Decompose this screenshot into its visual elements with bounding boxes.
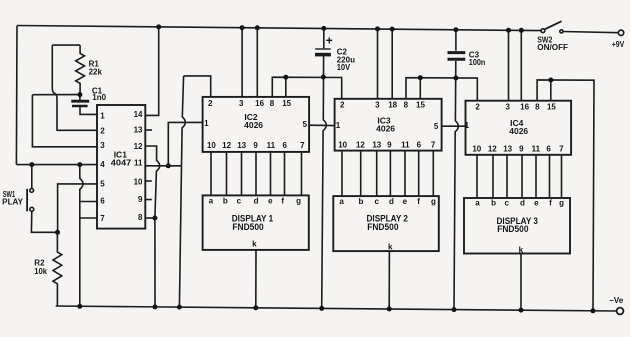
display 3 name DISPLAY 3 FND500: [497, 216, 539, 235]
wire IC3 pin 13 to display 2 segment c: [376, 151, 378, 197]
svg-text:4026: 4026: [244, 120, 263, 130]
svg-text:8: 8: [270, 99, 275, 108]
wire R1 top branch: [52, 44, 80, 46]
node rail/IC3 pin 3 junction: [375, 26, 380, 31]
svg-text:8: 8: [138, 213, 143, 222]
svg-text:13: 13: [237, 141, 246, 150]
wire IC1 pin 6: [80, 201, 97, 203]
svg-text:9: 9: [387, 141, 392, 150]
svg-text:7: 7: [100, 214, 105, 223]
IC1 pin numbers: [100, 110, 143, 223]
svg-text:12: 12: [222, 141, 231, 150]
wire IC4 pin 6 to display 3 segment f: [549, 155, 551, 198]
wire R1/C1 node line: [32, 94, 80, 96]
wire IC3 pin 12 to display 2 segment b: [360, 151, 362, 197]
svg-text:13: 13: [503, 145, 512, 154]
svg-text:15: 15: [282, 99, 291, 108]
svg-text:c: c: [504, 198, 509, 207]
wire IC1 pin 11 output: [145, 165, 181, 167]
node rail/IC2 pin 16 junction: [255, 25, 260, 30]
pin IC1 13 stub: [145, 129, 152, 131]
svg-text:ON/OFF: ON/OFF: [537, 43, 568, 52]
wire display 1 cathode k to ground rail: [255, 250, 257, 308]
svg-text:2: 2: [208, 99, 213, 108]
svg-text:18: 18: [388, 101, 397, 110]
wire +9V top rail: [17, 26, 541, 31]
svg-text:f: f: [417, 197, 420, 206]
wire IC3 pin 18 to rail: [391, 29, 393, 99]
svg-text:10V: 10V: [337, 63, 351, 72]
wire SW1 top lead: [31, 165, 33, 189]
node rail/IC2 pin 3 junction: [240, 25, 245, 30]
wire IC3 pin 11 to display 2 segment e: [404, 151, 406, 197]
wire IC2 pins 8/15 ground link to C2 node and IC3 pin 2: [272, 77, 341, 99]
terminal -Ve: [617, 308, 624, 315]
svg-text:c: c: [374, 197, 379, 206]
svg-text:11: 11: [134, 159, 143, 168]
node C3 / ground link junction: [453, 76, 458, 81]
display 1 name DISPLAY 1 FND500: [232, 214, 274, 233]
wire IC2 pin 16 to rail: [256, 28, 258, 97]
svg-text:5: 5: [100, 179, 105, 188]
label C3 100n: [469, 50, 486, 67]
label SW2 ON/OFF: [537, 36, 568, 52]
svg-text:3: 3: [239, 99, 244, 108]
svg-text:+: +: [326, 33, 333, 47]
pin IC1 10 stub: [145, 180, 152, 182]
wire IC4 pin 11 to display 3 segment e: [535, 155, 537, 198]
switch SW2 ON/OFF: [541, 21, 618, 33]
wire IC3 pin 15 riser: [419, 78, 421, 99]
svg-text:g: g: [559, 198, 564, 207]
node rail/IC4 pin 16 junction: [519, 28, 524, 33]
svg-text:14: 14: [134, 110, 143, 119]
svg-text:PLAY: PLAY: [2, 198, 23, 207]
svg-text:g: g: [431, 197, 436, 206]
svg-text:k: k: [388, 243, 393, 252]
wire IC4 pin 9 to display 3 segment d: [521, 155, 523, 198]
wire IC1 pin 14 to +9V rail: [145, 27, 158, 116]
svg-text:1: 1: [336, 121, 341, 130]
svg-text:15: 15: [416, 101, 425, 110]
capacitor C1 1n0: [71, 95, 97, 115]
svg-text:4: 4: [100, 160, 105, 169]
display 2 segment letters a-g and k: [339, 197, 436, 252]
svg-text:b: b: [223, 197, 228, 206]
svg-text:7: 7: [559, 145, 564, 154]
svg-text:15: 15: [547, 103, 556, 112]
wire IC3 pin 6 to display 2 segment f: [418, 151, 420, 197]
svg-text:12: 12: [356, 141, 365, 150]
display DISPLAY 3 FND500 body: [464, 198, 570, 254]
node ground rail / display 2 cathode: [387, 307, 392, 312]
node ground rail / IC1 pin 8 branch: [153, 304, 158, 309]
svg-text:10k: 10k: [34, 267, 47, 276]
svg-text:11: 11: [401, 141, 410, 150]
wire IC4 pin 13 to display 3 segment c: [506, 155, 508, 198]
switch SW1 PLAY: [27, 189, 34, 212]
svg-text:9: 9: [253, 141, 258, 150]
svg-text:9: 9: [138, 195, 143, 204]
svg-text:100n: 100n: [469, 58, 486, 67]
svg-text:5: 5: [303, 120, 308, 129]
node ground rail / IC4 right drop: [591, 308, 596, 313]
svg-text:f: f: [281, 197, 284, 206]
wire IC4 pin 16 to rail: [520, 30, 522, 100]
wire C2 to ground rail, hops clock line: [322, 56, 327, 309]
capacitor C3 100n plates: [448, 53, 466, 60]
IC4 name 4026: [509, 118, 528, 136]
IC U2 IC2 4026 body: [203, 97, 310, 152]
IC4 pin numbers: [465, 103, 564, 154]
svg-text:6: 6: [282, 141, 287, 150]
wire IC3 pin 5 to IC4 pin 1: [442, 125, 466, 127]
wire IC2 pin 2 ground drop, hops clock line: [179, 76, 185, 307]
wire IC2 pin 5 to IC3 pin 1: [309, 124, 335, 126]
wire IC4 pins 8/15 to ground rail right drop: [537, 80, 594, 311]
wire IC1 pin 4 line: [16, 164, 97, 166]
svg-text:1: 1: [100, 111, 105, 120]
svg-text:g: g: [296, 197, 301, 206]
svg-text:13: 13: [134, 126, 143, 135]
display DISPLAY 2 FND500 body: [333, 196, 439, 251]
node IC3 pin 15 / ground link junction: [418, 75, 423, 80]
display 2 name DISPLAY 2 FND500: [367, 214, 409, 233]
svg-text:6: 6: [546, 145, 551, 154]
node pin 4 line / SW1 junction: [29, 162, 34, 167]
wire IC4 pin 3 to rail: [508, 30, 510, 101]
svg-text:9: 9: [519, 145, 524, 154]
node SW1/R2/pin 5 junction: [55, 230, 60, 235]
svg-text:6: 6: [417, 141, 422, 150]
svg-text:3: 3: [100, 141, 105, 150]
svg-text:3: 3: [505, 103, 510, 112]
wire IC4 pin 10 to display 3 segment a: [476, 155, 478, 198]
node ground rail / C2 branch: [319, 306, 324, 311]
IC2 name 4026: [244, 112, 263, 130]
svg-text:1: 1: [465, 121, 470, 130]
resistor R2: [53, 232, 62, 306]
svg-text:k: k: [252, 240, 257, 249]
wire display 2 cathode k to ground rail: [388, 251, 390, 309]
IC1 name 4047: [111, 149, 132, 167]
wire IC4 pin 12 to display 3 segment b: [492, 155, 494, 198]
wire -Ve bottom rail: [56, 306, 617, 311]
node R1/C1 junction: [77, 92, 82, 97]
capacitor C2 220u top lead: [323, 28, 325, 48]
label R2 10k: [34, 259, 47, 276]
wire IC2 pin 11 to display 1 segment e: [270, 152, 272, 196]
display 1 segment letters a-g and k: [209, 197, 301, 249]
svg-text:13: 13: [372, 141, 381, 150]
node ground rail / display 3 cathode: [519, 308, 524, 313]
IC3 name 4026: [376, 115, 395, 133]
node pin 4 line / ground branch junction: [77, 162, 82, 167]
svg-text:8: 8: [535, 103, 540, 112]
svg-text:10: 10: [338, 141, 347, 150]
terminal +9V: [618, 30, 623, 35]
wire IC1 pins 12/8 to ground rail, hops pin 11 wire: [145, 146, 159, 307]
node ground rail / display 1 cathode: [253, 305, 258, 310]
node ground rail / C3 branch: [452, 307, 457, 312]
svg-text:b: b: [491, 198, 496, 207]
IC U4 IC4 4026 body: [466, 101, 572, 155]
svg-text:b: b: [359, 197, 364, 206]
svg-text:f: f: [549, 198, 552, 207]
wire C3 to ground rail, hops clock line: [454, 61, 458, 310]
wire clock from pin 11 node to IC2 pin 1: [168, 122, 202, 165]
svg-text:d: d: [254, 197, 259, 206]
wire IC2 pin 15 riser: [285, 77, 287, 97]
svg-text:FND500: FND500: [232, 222, 263, 233]
svg-text:a: a: [475, 198, 480, 207]
svg-text:–Ve: –Ve: [609, 296, 624, 305]
wire SW1 bottom lead: [31, 212, 57, 233]
node rail/IC3 pin 18 junction: [390, 27, 395, 32]
svg-text:22k: 22k: [89, 68, 103, 77]
wire IC2 pin 13 to display 1 segment c: [241, 152, 243, 196]
wire R1 top to IC1 pin 2, hops node line: [52, 45, 97, 130]
svg-text:7: 7: [431, 141, 436, 150]
wire IC2 pin 9 to display 1 segment d: [255, 152, 257, 196]
label C1 1n0: [92, 87, 107, 103]
capacitor C3 100n top lead: [455, 30, 457, 51]
svg-text:+9V: +9V: [612, 40, 625, 49]
wire left vertical from top rail: [15, 26, 18, 165]
svg-text:7: 7: [300, 141, 305, 150]
svg-text:FND500: FND500: [497, 224, 528, 235]
svg-text:3: 3: [375, 101, 380, 110]
svg-text:a: a: [339, 197, 344, 206]
IC U1 IC1 4047 body: [97, 105, 145, 229]
svg-text:10: 10: [207, 141, 216, 150]
svg-text:e: e: [268, 197, 273, 206]
svg-text:10: 10: [134, 177, 143, 186]
label SW1 PLAY: [2, 190, 23, 206]
wire IC2 pin 12 to display 1 segment b: [226, 152, 228, 196]
node rail/C2 junction: [321, 26, 326, 31]
svg-text:d: d: [520, 198, 525, 207]
display 3 segment letters a-g and k: [475, 198, 564, 254]
node IC1 pin 11 junction: [166, 163, 171, 168]
wire IC2 pin 10 to display 1 segment a: [210, 152, 212, 196]
wire IC2 pin 7 to display 1 segment g: [301, 152, 303, 196]
node IC2 pin 15 / ground link junction: [283, 75, 288, 80]
svg-text:2: 2: [475, 103, 480, 112]
wire IC1 pin 7: [80, 217, 97, 219]
capacitor C2 220u plates: [315, 49, 331, 55]
wire R2/SW1 node to IC1 pin 5: [58, 184, 97, 232]
wire IC4 pin 7 to display 3 segment g: [561, 155, 563, 198]
node rail/IC1 pin 14 junction: [156, 24, 161, 29]
node IC1 pin 8 junction: [152, 216, 157, 221]
svg-text:4026: 4026: [509, 126, 528, 136]
node ground rail / IC2 pin 2 branch: [177, 305, 182, 310]
svg-text:11: 11: [267, 141, 276, 150]
pin IC1 8 stub: [145, 217, 155, 219]
svg-text:8: 8: [404, 101, 409, 110]
svg-text:e: e: [403, 197, 408, 206]
wire IC2 pin 6 to display 1 segment f: [284, 152, 286, 196]
wire IC3 pin 10 to display 2 segment a: [341, 151, 343, 197]
wire IC3 pin 9 to display 2 segment d: [389, 151, 391, 197]
label R1 22k: [89, 60, 103, 77]
IC U3 IC3 4026 body: [335, 99, 442, 151]
svg-text:e: e: [534, 198, 539, 207]
IC2 pin numbers: [204, 99, 308, 150]
svg-text:10: 10: [472, 145, 481, 154]
node rail/C3 junction: [453, 27, 458, 32]
svg-text:12: 12: [488, 145, 497, 154]
IC3 pin numbers: [336, 101, 439, 150]
node ground rail / pins 4-6-7 branch: [77, 304, 82, 309]
svg-text:4047: 4047: [111, 158, 132, 168]
svg-text:11: 11: [532, 145, 541, 154]
label C2 220u 10V: [337, 47, 355, 72]
wire IC2 pin 2 top link: [184, 76, 211, 97]
wire IC3 pin 3 to rail: [377, 29, 379, 99]
wire IC4 pin 15 riser: [550, 80, 552, 101]
svg-text:12: 12: [134, 142, 143, 151]
svg-text:k: k: [519, 246, 524, 255]
svg-text:4026: 4026: [376, 124, 395, 134]
wire to IC1 pin 3: [32, 95, 97, 147]
wire IC2 pin 3 to rail: [241, 28, 243, 97]
node C2 / ground link junction: [321, 75, 326, 80]
svg-text:16: 16: [255, 99, 264, 108]
wire display 3 cathode k to ground rail: [520, 254, 522, 311]
display DISPLAY 1 FND500 body: [203, 195, 309, 250]
svg-text:5: 5: [434, 122, 439, 131]
svg-text:FND500: FND500: [367, 222, 398, 233]
svg-text:a: a: [209, 197, 214, 206]
wire ground branch IC1 pins 4/6/7, hops pin 5 wire: [80, 165, 83, 307]
resistor R1: [76, 45, 85, 95]
svg-text:2: 2: [340, 101, 345, 110]
svg-text:2: 2: [100, 127, 105, 136]
svg-text:1: 1: [204, 119, 209, 128]
node rail/IC4 pin 3 junction: [506, 28, 511, 33]
svg-text:6: 6: [100, 196, 105, 205]
node IC4 pin 15 / ground link junction: [548, 78, 553, 83]
wire IC3 pin 7 to display 2 segment g: [432, 151, 434, 197]
wire IC3 pins 8/15 ground link to C3 node and IC4 pin 2: [406, 78, 477, 101]
svg-text:c: c: [237, 197, 242, 206]
pin IC1 9 stub: [145, 199, 152, 201]
svg-text:1n0: 1n0: [92, 93, 106, 102]
svg-text:16: 16: [520, 103, 529, 112]
svg-text:d: d: [389, 197, 394, 206]
